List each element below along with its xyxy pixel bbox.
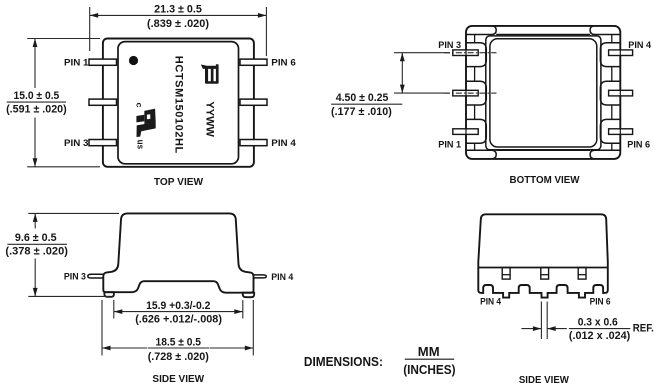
svg-text:15.0 ± 0.5: 15.0 ± 0.5	[14, 90, 60, 102]
centerline pin row1	[444, 52, 497, 54]
svg-text:DIMENSIONS:: DIMENSIONS:	[304, 355, 383, 369]
svg-text:PIN 3: PIN 3	[438, 40, 461, 51]
svg-text:PIN 4: PIN 4	[480, 297, 502, 308]
dim 21.3 extension line left	[89, 7, 91, 51]
corner tab bottom-left	[467, 150, 497, 159]
svg-text:21.3 ± 0.5: 21.3 ± 0.5	[154, 4, 202, 16]
dim 4.50 extension line top	[394, 52, 450, 54]
svg-text:HCTSM150102HL: HCTSM150102HL	[173, 56, 185, 154]
corner tab top-left	[467, 26, 497, 35]
dim 15.0 extension line top	[27, 38, 100, 40]
dim 9.6 dimension line	[34, 213, 36, 228]
fraction bar	[405, 358, 454, 360]
svg-text:TOP VIEW: TOP VIEW	[154, 177, 204, 188]
pin bottomview left row2	[453, 90, 478, 96]
svg-text:PIN 6: PIN 6	[590, 297, 611, 308]
svg-text:(.378 ± .020): (.378 ± .020)	[5, 246, 68, 258]
pin 1 (top view, left top)	[89, 59, 117, 65]
svg-text:SIDE VIEW: SIDE VIEW	[152, 374, 204, 385]
svg-text:(.626 +.012/-.008): (.626 +.012/-.008)	[135, 313, 222, 325]
dim 0.3 arrows	[521, 328, 541, 330]
pin shank rect 3	[578, 268, 586, 280]
right foot	[243, 293, 254, 298]
inner body rect	[118, 42, 239, 164]
pin pocket left row2	[466, 81, 486, 105]
dim 15.9 dimension line	[114, 311, 136, 313]
svg-text:MM: MM	[418, 345, 440, 359]
svg-text:(.591 ± .020): (.591 ± .020)	[6, 104, 67, 116]
pin bottomview right row1	[609, 50, 633, 56]
svg-text:15.9 +0.3/-0.2: 15.9 +0.3/-0.2	[146, 300, 210, 312]
left foot	[104, 292, 114, 297]
pin pocket right row3	[600, 119, 620, 143]
body outline (side view left)	[103, 213, 253, 292]
package body outline	[103, 39, 254, 167]
svg-text:SIDE VIEW: SIDE VIEW	[519, 375, 570, 386]
svg-text:YYWW: YYWW	[204, 101, 216, 137]
svg-text:c: c	[134, 103, 144, 108]
svg-text:PIN 4: PIN 4	[271, 138, 296, 149]
svg-text:PIN 6: PIN 6	[627, 139, 650, 150]
svg-text:(.177 ± .010): (.177 ± .010)	[331, 106, 392, 118]
pin bottomview left row3	[453, 129, 478, 135]
corner tab top-right	[590, 26, 620, 35]
dim 15.0 extension line bottom	[27, 166, 100, 168]
svg-text:PIN 4: PIN 4	[628, 40, 651, 51]
svg-text:(INCHES): (INCHES)	[403, 363, 455, 377]
pin 2 (top view, left middle)	[89, 99, 117, 105]
svg-text:PIN 3: PIN 3	[64, 138, 89, 149]
package body outline	[466, 26, 620, 159]
Bourns B logo (rotated)	[201, 64, 219, 83]
svg-text:REF.: REF.	[633, 322, 654, 334]
pin 5 (top view, right middle)	[240, 99, 267, 105]
svg-text:PIN 1: PIN 1	[64, 58, 89, 69]
rim line top	[496, 34, 590, 36]
dim 4.50 dimension line	[401, 53, 403, 93]
svg-text:4.50 ± 0.25: 4.50 ± 0.25	[336, 92, 389, 104]
pin 3 (top view, left bottom)	[89, 140, 117, 146]
pin shank rect 2	[541, 268, 549, 280]
pin bottomview right row2	[609, 90, 633, 96]
pin 4 (top view, right bottom)	[240, 140, 267, 146]
pin 3 (side view)	[88, 274, 104, 278]
dim 15.9 extension right	[242, 300, 244, 319]
pin shank rect 1	[502, 268, 510, 280]
dim 15.9 extension left	[113, 300, 115, 319]
pin pocket right row2	[600, 81, 620, 105]
pin bottomview right row3	[609, 129, 633, 135]
pin pocket right row1	[600, 43, 620, 67]
pin pocket left row3	[466, 119, 486, 143]
pin pocket left row1	[466, 43, 486, 67]
dim 4.50 extension line bottom	[394, 92, 450, 94]
svg-text:BOTTOM VIEW: BOTTOM VIEW	[510, 175, 581, 186]
svg-text:PIN 4: PIN 4	[271, 272, 294, 283]
svg-text:(.728 ± .020): (.728 ± .020)	[148, 351, 209, 363]
centerline pin row2	[444, 92, 497, 94]
svg-text:PIN 1: PIN 1	[438, 139, 461, 150]
cavity outer	[486, 36, 601, 150]
svg-text:9.6 ± 0.5: 9.6 ± 0.5	[15, 232, 57, 244]
pin 4 (side view)	[254, 275, 267, 278]
rim line bottom	[496, 149, 590, 151]
dim 0.3 extension lines	[540, 302, 542, 340]
neck lines right	[611, 35, 613, 43]
dim 21.3 dimension line	[90, 14, 267, 16]
dim 18.5 dimension line	[102, 347, 147, 349]
parting line	[478, 267, 608, 269]
svg-text:18.5 ± 0.5: 18.5 ± 0.5	[156, 336, 202, 348]
corner tab bottom-right	[590, 150, 620, 159]
UL recognized component mark (rotated)	[134, 103, 155, 150]
svg-text:us: us	[135, 140, 146, 150]
cavity inner	[490, 39, 597, 147]
body outline (side view right)	[478, 214, 608, 297]
dim 18.5 extension left	[101, 300, 103, 356]
dim 21.3 extension line right	[265, 7, 267, 56]
pin 1 index dot	[129, 56, 138, 65]
svg-text:PIN 6: PIN 6	[271, 58, 296, 69]
pin 6 (top view, right top)	[240, 59, 267, 65]
svg-text:(.012 x .024): (.012 x .024)	[569, 330, 631, 342]
svg-text:0.3 x 0.6: 0.3 x 0.6	[578, 316, 618, 328]
svg-text:(.839 ± .020): (.839 ± .020)	[147, 18, 209, 30]
svg-text:PIN 3: PIN 3	[64, 272, 86, 283]
neck lines left	[474, 35, 476, 43]
dim 15.0 dimension line	[34, 39, 36, 89]
dim 9.6 extension top	[28, 212, 119, 214]
dim 18.5 extension right	[252, 300, 254, 356]
dim 9.6 extension bottom (seating plane)	[28, 295, 110, 297]
pin bottomview left row1	[453, 50, 478, 56]
